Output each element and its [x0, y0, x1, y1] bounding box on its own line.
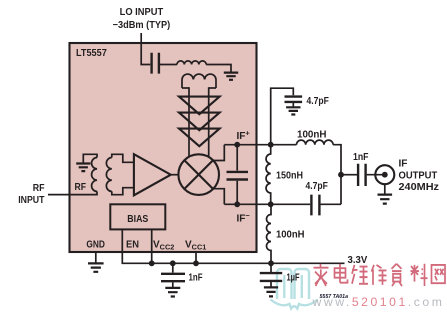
wire RF input: [48, 191, 97, 194]
node 3.3V junction: [268, 260, 274, 266]
capacitor 4.7pF shunt: [285, 97, 303, 102]
inductor 100nH series: [297, 140, 334, 145]
wire mixer out top: [213, 145, 224, 161]
node VCC2 junction: [149, 260, 155, 266]
wire RF primary top to ground: [83, 154, 97, 163]
node 1nF junction: [170, 260, 176, 266]
wire connector to ground: [384, 184, 386, 194]
wire GND pin: [95, 252, 97, 263]
wire 1nF bypass stub: [172, 263, 174, 272]
capacitor 1nF bypass: [161, 274, 185, 281]
wire inductor to ground: [206, 65, 231, 72]
wire LO secondary jog left: [182, 87, 189, 89]
svg-text:IF: IF: [399, 159, 408, 170]
wire EN leg and supply bus: [122, 229, 344, 263]
wire internal cap top: [236, 145, 238, 171]
amplifier LO stage 1: [179, 97, 220, 115]
node IF- internal: [234, 201, 240, 207]
capacitor 1uF bypass: [260, 273, 282, 281]
watermark char zi: [392, 264, 403, 286]
svg-text:EN: EN: [126, 239, 139, 250]
svg-text:GND: GND: [86, 239, 105, 250]
svg-text:150nH: 150nH: [276, 171, 303, 182]
inductor LO primary: [177, 61, 206, 65]
ground 1uF: [264, 287, 278, 296]
svg-text:www.520101.com: www.520101.com: [312, 295, 445, 309]
svg-text:LO INPUT: LO INPUT: [120, 7, 164, 18]
wire amp to mixer: [171, 174, 179, 176]
ground RF transformer: [76, 164, 90, 172]
wire RF secondary top to amp: [112, 154, 134, 162]
node output tap: [338, 172, 344, 178]
svg-text:100nH: 100nH: [276, 230, 305, 241]
ground connector: [378, 195, 393, 204]
wire LO to inductor: [160, 64, 177, 66]
watermark char wei: [352, 265, 368, 284]
node VCC1 junction: [193, 260, 199, 266]
svg-text:3.3V: 3.3V: [348, 255, 368, 266]
svg-text:1nF: 1nF: [189, 273, 203, 284]
amplifier LO stage 2: [179, 113, 220, 131]
wire internal cap bottom: [236, 181, 238, 205]
svg-text:−3dBm (TYP): −3dBm (TYP): [113, 20, 171, 31]
svg-text:100nH: 100nH: [297, 130, 327, 141]
svg-text:BIAS: BIAS: [127, 214, 148, 225]
svg-text:OUTPUT: OUTPUT: [399, 170, 438, 181]
wire IF- line left: [224, 203, 310, 205]
op-amp RF amplifier: [134, 154, 171, 195]
wire mixer out bottom: [213, 189, 224, 205]
svg-text:240MHz: 240MHz: [399, 182, 440, 193]
wire LO diff feed left: [188, 87, 190, 156]
svg-text:RF: RF: [33, 183, 45, 194]
wire IF+ line: [224, 144, 296, 146]
mixer circle: [178, 154, 219, 195]
watermark char wang: [432, 265, 446, 283]
BIAS box: [110, 204, 165, 229]
wire 4.7pF to ground: [292, 103, 294, 107]
svg-text:4.7pF: 4.7pF: [306, 181, 328, 192]
transformer RF primary: [92, 158, 97, 192]
watermark char liao: [411, 264, 428, 286]
mixer X: [184, 160, 213, 189]
capacitor LO coupling: [152, 53, 159, 74]
wire LO input drop: [141, 33, 150, 65]
transformer LO secondary: [182, 74, 216, 88]
transformer RF secondary: [106, 158, 111, 192]
wire LO diff feed right: [208, 87, 210, 156]
capacitor 4.7pF series: [311, 195, 319, 216]
inductor 150nH shunt: [266, 145, 271, 205]
wire 1nF bypass to ground: [172, 282, 174, 287]
node IF+ internal: [234, 142, 240, 148]
wire 1nF to connector: [367, 174, 385, 176]
watermark char xiu: [372, 265, 387, 285]
capacitor 1nF output: [358, 164, 366, 186]
svg-text:RF: RF: [75, 182, 87, 193]
wire 1uF stub: [270, 263, 272, 272]
wire 1uF to ground: [270, 282, 272, 287]
svg-text:LT5557: LT5557: [76, 48, 107, 59]
node IF+ external: [268, 142, 274, 148]
wire 100nH to right vertical: [333, 145, 341, 205]
watermark char dian: [335, 264, 348, 283]
node IF- external: [268, 201, 274, 207]
wire RF secondary bottom to amp: [112, 188, 134, 195]
svg-text:1nF: 1nF: [353, 152, 369, 163]
IC block LT5557: [70, 43, 257, 252]
inductor 100nH choke: [267, 204, 272, 263]
svg-text:4.7pF: 4.7pF: [307, 96, 329, 107]
svg-text:1µF: 1µF: [287, 273, 300, 284]
amplifier LO stage 3: [179, 129, 220, 147]
svg-text:INPUT: INPUT: [18, 195, 44, 206]
ground GND pin: [88, 263, 104, 271]
wire LO secondary jog right: [209, 87, 216, 89]
ground LO: [224, 73, 238, 80]
capacitor internal IF: [227, 172, 249, 180]
wire output tap: [341, 174, 357, 176]
wire VCC1 leg: [195, 252, 197, 263]
watermark char jia: [314, 264, 329, 286]
wire VCC2 leg: [151, 229, 153, 263]
ground 1nF bypass: [165, 288, 180, 297]
watermark book logo: [271, 269, 318, 309]
connector IF output: [375, 165, 394, 184]
wire IF- line right: [321, 203, 342, 205]
ground 4.7pF shunt: [286, 107, 300, 114]
wire 4.7pF branch up: [271, 88, 294, 145]
